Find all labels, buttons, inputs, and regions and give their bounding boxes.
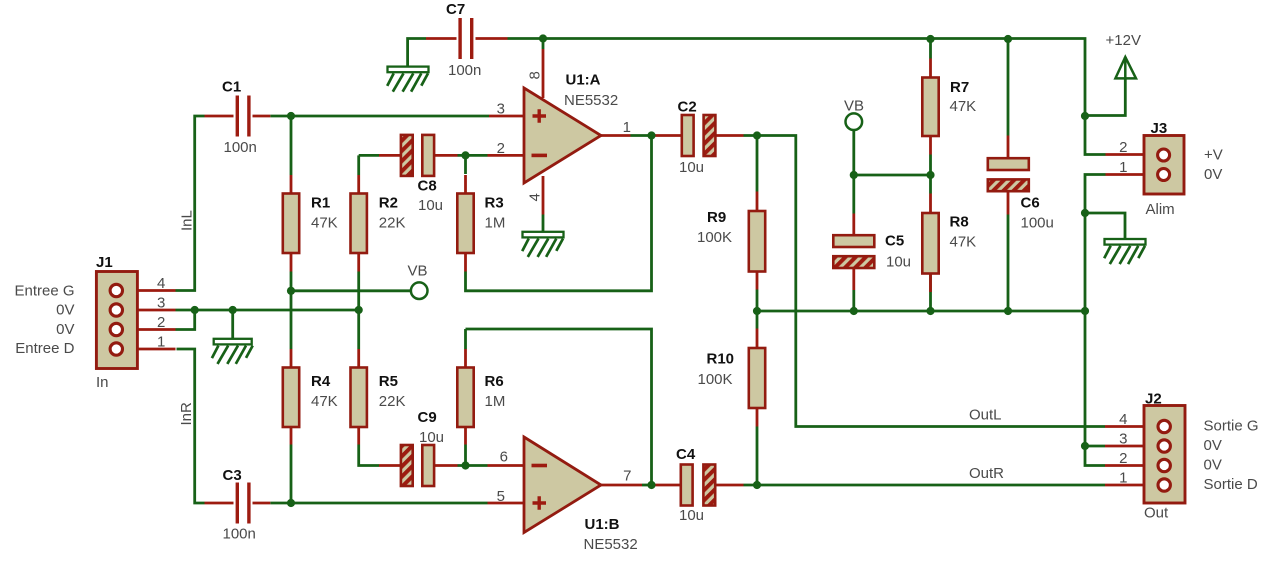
svg-text:+12V: +12V — [1106, 32, 1141, 49]
svg-text:10u: 10u — [679, 507, 704, 524]
svg-text:1: 1 — [157, 334, 165, 351]
svg-text:VB: VB — [844, 98, 864, 115]
svg-text:C9: C9 — [418, 409, 437, 426]
svg-text:1: 1 — [1119, 470, 1127, 487]
svg-text:R9: R9 — [707, 209, 726, 226]
svg-text:10u: 10u — [419, 429, 444, 446]
svg-text:0V: 0V — [56, 321, 74, 338]
svg-text:1: 1 — [1119, 159, 1127, 176]
svg-text:NE5532: NE5532 — [564, 92, 618, 109]
svg-text:R8: R8 — [950, 214, 969, 231]
svg-text:100u: 100u — [1021, 215, 1054, 232]
svg-text:10u: 10u — [418, 197, 443, 214]
svg-text:0V: 0V — [56, 301, 74, 318]
svg-text:R3: R3 — [485, 195, 504, 212]
svg-text:C8: C8 — [418, 178, 437, 195]
svg-text:100n: 100n — [224, 139, 257, 156]
svg-text:1M: 1M — [485, 215, 506, 232]
svg-text:8: 8 — [527, 71, 544, 79]
svg-text:U1:B: U1:B — [585, 516, 620, 533]
svg-text:0V: 0V — [1204, 437, 1222, 454]
svg-text:+V: +V — [1204, 146, 1223, 163]
svg-text:C6: C6 — [1021, 195, 1040, 212]
svg-text:100K: 100K — [697, 229, 732, 246]
svg-text:R1: R1 — [311, 195, 330, 212]
svg-text:R5: R5 — [379, 373, 398, 390]
svg-text:R7: R7 — [950, 79, 969, 96]
svg-text:C7: C7 — [446, 1, 465, 18]
svg-text:47K: 47K — [311, 215, 338, 232]
svg-text:47K: 47K — [950, 234, 977, 251]
svg-text:NE5532: NE5532 — [584, 536, 638, 553]
svg-text:1: 1 — [623, 119, 631, 136]
svg-text:OutR: OutR — [969, 465, 1004, 482]
svg-text:C5: C5 — [885, 233, 904, 250]
svg-text:1M: 1M — [485, 393, 506, 410]
svg-text:0V: 0V — [1204, 457, 1222, 474]
svg-text:6: 6 — [500, 449, 508, 466]
svg-text:3: 3 — [497, 101, 505, 118]
svg-text:Entree D: Entree D — [15, 340, 74, 357]
svg-text:R2: R2 — [379, 195, 398, 212]
svg-text:C2: C2 — [678, 99, 697, 116]
svg-text:10u: 10u — [679, 159, 704, 176]
svg-text:47K: 47K — [950, 98, 977, 115]
svg-text:100K: 100K — [698, 371, 733, 388]
svg-text:0V: 0V — [1204, 166, 1222, 183]
svg-text:2: 2 — [497, 140, 505, 157]
svg-text:2: 2 — [1119, 450, 1127, 467]
svg-text:C1: C1 — [222, 79, 241, 96]
svg-text:In: In — [96, 374, 109, 391]
svg-text:Entree G: Entree G — [14, 282, 74, 299]
svg-text:C4: C4 — [676, 446, 696, 463]
svg-text:4: 4 — [157, 275, 165, 292]
svg-text:InR: InR — [178, 402, 195, 426]
svg-text:2: 2 — [1119, 139, 1127, 156]
svg-text:U1:A: U1:A — [566, 72, 601, 89]
svg-text:22K: 22K — [379, 393, 406, 410]
svg-text:R4: R4 — [311, 373, 331, 390]
svg-text:R6: R6 — [485, 373, 504, 390]
svg-text:100n: 100n — [448, 62, 481, 79]
svg-text:5: 5 — [497, 488, 505, 505]
svg-text:47K: 47K — [311, 393, 338, 410]
svg-text:10u: 10u — [886, 254, 911, 271]
svg-text:Alim: Alim — [1146, 201, 1175, 218]
svg-text:Sortie G: Sortie G — [1204, 418, 1259, 435]
svg-text:InL: InL — [179, 210, 196, 231]
svg-text:J3: J3 — [1151, 120, 1168, 137]
svg-text:2: 2 — [157, 314, 165, 331]
svg-text:VB: VB — [408, 263, 428, 280]
svg-text:C3: C3 — [223, 467, 242, 484]
svg-text:J1: J1 — [96, 254, 113, 271]
svg-text:3: 3 — [1119, 431, 1127, 448]
svg-text:4: 4 — [527, 193, 544, 201]
svg-text:R10: R10 — [707, 351, 735, 368]
svg-text:OutL: OutL — [969, 407, 1002, 424]
svg-text:22K: 22K — [379, 215, 406, 232]
svg-text:Sortie D: Sortie D — [1204, 476, 1258, 493]
svg-text:Out: Out — [1144, 505, 1169, 522]
svg-text:100n: 100n — [223, 526, 256, 543]
svg-text:7: 7 — [623, 468, 631, 485]
svg-text:J2: J2 — [1145, 391, 1162, 408]
svg-text:3: 3 — [157, 295, 165, 312]
svg-text:4: 4 — [1119, 411, 1127, 428]
